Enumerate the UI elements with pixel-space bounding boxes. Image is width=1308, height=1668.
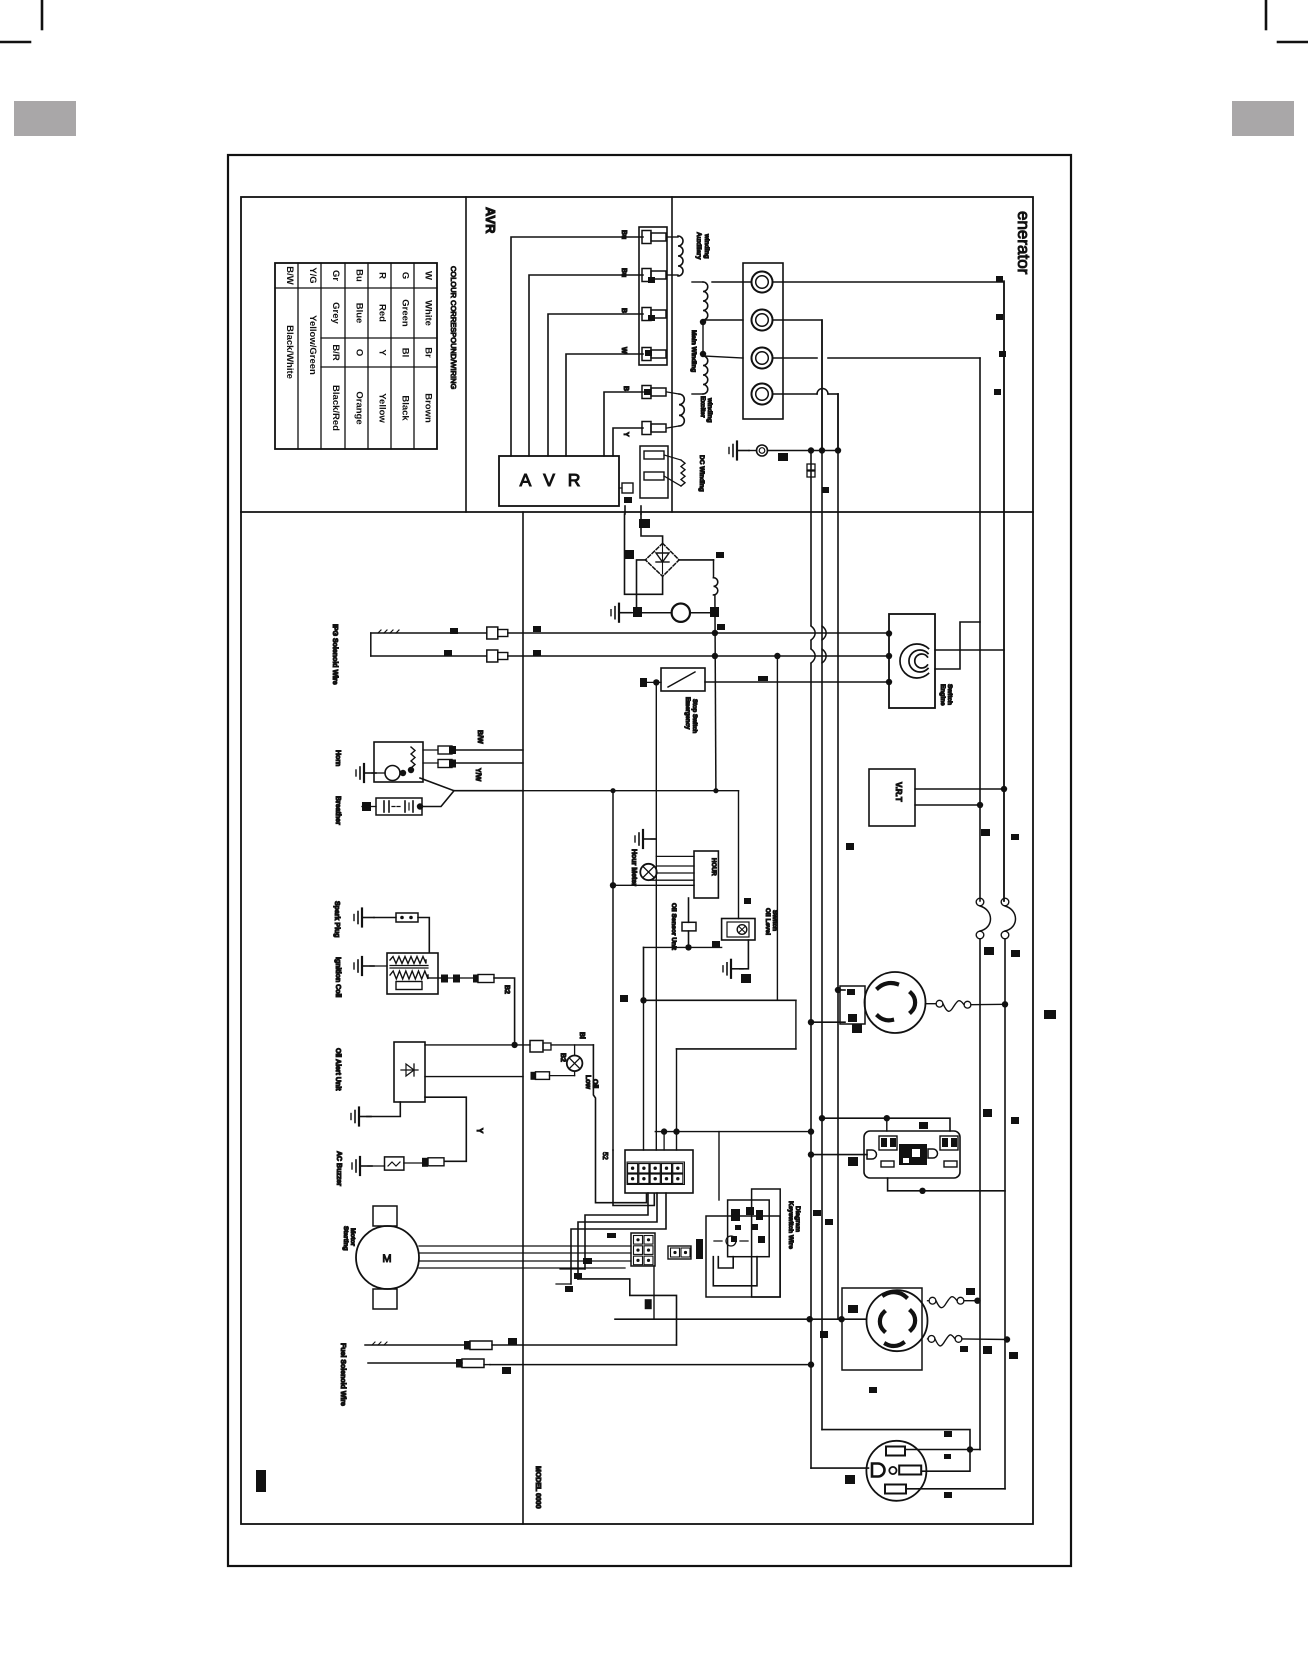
svg-text:V.R.T: V.R.T (894, 782, 903, 802)
receptacle2 cord upper (928, 1300, 930, 1302)
svg-text:Motor: Motor (349, 1228, 356, 1247)
receptacle2 slot top (884, 1292, 906, 1297)
ignition coil zigzag bottom (390, 971, 428, 979)
rv bus bottom slot (906, 1488, 1005, 1490)
svg-text:IPG Solenoid Wire: IPG Solenoid Wire (331, 624, 338, 685)
gray tab right (1232, 101, 1294, 136)
svg-text:Green: Green (400, 299, 411, 327)
wire avr to bridge 1 (624, 506, 626, 514)
receptacle2 slot bottom (886, 1343, 903, 1346)
bridge bottom wire (637, 576, 663, 594)
svg-text:B/W: B/W (476, 730, 483, 744)
wire avr pin6 (613, 428, 643, 456)
gfci left outlet slots (879, 1136, 897, 1150)
keyswitch glyphs (731, 1209, 740, 1221)
svg-text:R: R (377, 272, 388, 279)
svg-text:Black: Black (400, 395, 411, 421)
relay ground label (741, 974, 751, 983)
gfci ground wire (811, 1154, 867, 1156)
svg-text:Oil Sensor Unit: Oil Sensor Unit (670, 903, 677, 951)
oil alert wire bottom (425, 1097, 466, 1161)
rv receptacle circle (866, 1441, 926, 1501)
lamp to coil wire (690, 612, 710, 614)
fuel labels (508, 1338, 517, 1345)
coil label (716, 552, 724, 558)
breaker 1 (976, 898, 984, 906)
junction wire (644, 946, 722, 948)
auxiliary winding coil (678, 236, 683, 276)
emergency wire right (705, 681, 889, 683)
connector block upper (639, 227, 667, 365)
exciter coil (679, 394, 684, 426)
svg-text:Y: Y (377, 349, 388, 356)
engine switch out1 (935, 649, 1004, 651)
spark plug resistor (374, 917, 396, 919)
svg-text:winding: winding (706, 397, 713, 423)
connector bottom label (645, 1299, 652, 1309)
emergency to connector vertical (655, 682, 657, 1150)
divider table/avr (465, 197, 467, 512)
receptacle2 cord lower (927, 1338, 930, 1340)
pin 4 (642, 348, 651, 361)
svg-text:B2: B2 (559, 1053, 566, 1062)
oil alert wire top (425, 1044, 530, 1046)
svg-text:winding: winding (703, 233, 710, 259)
keyswitch outer box (706, 1216, 780, 1297)
rv slot top (886, 1447, 905, 1456)
connector label vertical (696, 1239, 703, 1259)
wire avr pin1 (511, 237, 643, 456)
resistor oil (682, 922, 696, 931)
fuel wire bottom (368, 1362, 462, 1364)
bridge feed pin (639, 519, 650, 528)
oil relay box (722, 919, 755, 941)
gray tab left (14, 101, 76, 136)
svg-text:AC Buzzer: AC Buzzer (335, 1151, 342, 1186)
fuel wire bottom right (484, 1364, 490, 1366)
svg-text:Y: Y (622, 432, 629, 437)
svg-text:A V R: A V R (520, 470, 585, 490)
svg-text:Diagram: Diagram (794, 1206, 801, 1232)
oil relay ground (740, 940, 749, 969)
spark wire (418, 918, 429, 953)
hour meter lamp (640, 864, 656, 880)
ground generator (736, 442, 738, 460)
pin 2 (642, 269, 651, 282)
terminal1 wire to bus (773, 282, 1005, 901)
ignition coil core (390, 965, 428, 967)
svg-text:B: B (622, 386, 629, 391)
label on L wire (620, 995, 628, 1002)
oil alert ground (358, 1108, 360, 1126)
ignition ground (361, 957, 363, 975)
svg-text:Emergency: Emergency (684, 697, 690, 730)
table column lines (297, 263, 299, 449)
pin 3 (642, 308, 651, 321)
bridge left loop (625, 514, 646, 594)
svg-text:Horn: Horn (334, 750, 341, 766)
junction label (712, 941, 720, 947)
terminal3 bus vertical (979, 358, 981, 901)
motor brush top (373, 1206, 397, 1226)
spark plug ground (361, 909, 363, 927)
avr side pin (622, 483, 633, 493)
svg-text:Bu: Bu (354, 269, 365, 282)
receptacle2 slot right (911, 1311, 915, 1330)
breaker bus down 2 (1004, 939, 1006, 1489)
gfci body (864, 1131, 960, 1178)
table row line 1 (275, 287, 437, 289)
rv slot d (872, 1464, 885, 1477)
breather leads (362, 802, 371, 811)
wire avr to bridge 2 (640, 506, 642, 514)
nested wires from connector c (571, 1193, 666, 1284)
dc pin 2 (644, 472, 664, 480)
lamp down wire 2 (613, 1150, 654, 1206)
ignition coil bar (396, 982, 422, 990)
svg-text:Y: Y (475, 1128, 484, 1134)
terminal wire labels right (996, 276, 1003, 282)
bus822 middle (821, 320, 823, 1430)
svg-text:enerator: enerator (1014, 211, 1033, 275)
terminal strip (743, 263, 783, 419)
feed from six pin (653, 1266, 655, 1319)
engine switch arcs (900, 644, 929, 678)
breather diagonal (420, 791, 454, 807)
bridge right coil (679, 559, 713, 561)
gfci ground label (848, 1157, 858, 1166)
VRT wire 1 (915, 788, 1004, 790)
svg-text:Black/Red: Black/Red (330, 385, 341, 431)
feed bus horizontal (655, 1131, 811, 1133)
gfci buttons (899, 1144, 927, 1165)
svg-text:Main Winding: Main Winding (690, 330, 697, 372)
svg-text:O: O (354, 349, 365, 356)
dc pin 1 (644, 451, 664, 459)
avr side pin label (624, 497, 632, 503)
svg-text:Hour Meter: Hour Meter (630, 849, 637, 886)
hour meter ground (642, 830, 644, 848)
bridge left pin (624, 550, 634, 559)
bus 811 to rv (811, 1467, 869, 1469)
svg-text:Y/G: Y/G (307, 267, 318, 283)
svg-text:Exciter: Exciter (699, 396, 706, 418)
fuel fuse top (464, 1341, 470, 1350)
vertical from emergency bus (776, 656, 778, 1000)
terminal 1 (752, 272, 773, 293)
crop mark top-left horizontal (0, 41, 30, 44)
IPG wire top (371, 632, 486, 634)
receptacle1 slot right (911, 993, 915, 1012)
black pin right of lamp (710, 607, 719, 617)
terminal2 wire to bus (773, 320, 823, 451)
exciter pins (642, 386, 651, 399)
receptacle2 cord labels (966, 1288, 975, 1295)
ignition connector pair (441, 975, 448, 983)
IPG pigtail (378, 630, 399, 633)
svg-text:Bu: Bu (620, 230, 627, 239)
svg-text:Grey: Grey (330, 302, 341, 324)
svg-text:Switch: Switch (946, 684, 953, 705)
lamp fuse (531, 1072, 536, 1080)
rv slot right (899, 1466, 921, 1475)
svg-text:Keyswitch Wire: Keyswitch Wire (787, 1201, 794, 1249)
terminal4 wire to bus (773, 393, 818, 395)
oil relay feed (738, 791, 740, 919)
label on 682 wire (758, 676, 768, 681)
fuel wire top (365, 1344, 464, 1346)
horn circle (385, 766, 400, 781)
receptacle1 wires left (838, 989, 845, 991)
oil alert diode (401, 1069, 418, 1071)
oil alert box (394, 1042, 425, 1102)
gfci right outlet slots (940, 1136, 958, 1150)
motor circle (356, 1226, 419, 1289)
svg-text:Auxiliary: Auxiliary (695, 232, 702, 260)
IPG connector pin top (487, 627, 498, 639)
keyswitch tall box (752, 1189, 781, 1297)
svg-text:Low: Low (584, 1075, 591, 1090)
receptacle2 slot left (880, 1312, 884, 1331)
VRT labels (981, 829, 990, 836)
lamp feed wire (551, 1044, 593, 1046)
bridge diode glyph (656, 553, 669, 562)
bridge output to bus (715, 595, 716, 791)
svg-text:M: M (382, 1253, 391, 1265)
table row line 3 (321, 366, 437, 368)
vertical x613 (612, 791, 614, 1150)
indicator lamp (567, 1056, 583, 1072)
VRT wire 2 (915, 804, 980, 806)
main winding coil upper (703, 282, 708, 320)
right wire from horn (523, 790, 739, 792)
bus label near (717, 624, 725, 630)
breaker bus down 1 (979, 939, 981, 1450)
terminal wire labels left (648, 277, 655, 283)
terminal wires left (712, 281, 752, 283)
table cell texts (284, 266, 434, 431)
ground bridge (618, 604, 620, 622)
svg-text:White: White (423, 300, 434, 326)
nested wires from connector b (578, 1193, 657, 1279)
wire avr pin3 (548, 314, 643, 456)
main winding coil lower (703, 356, 708, 394)
IPG wire bottom (371, 655, 486, 657)
receptacle1 left box (840, 986, 865, 1024)
nested loop 2 (718, 1257, 733, 1268)
svg-text:Black/White: Black/White (284, 325, 295, 379)
wire divider to bridge top (641, 514, 663, 543)
svg-text:Bu: Bu (620, 268, 627, 277)
hour meter box (694, 851, 718, 898)
dc winding zigzag (681, 460, 685, 486)
rv slot bottom (885, 1485, 906, 1494)
svg-text:W: W (423, 271, 434, 280)
table row line 2 (321, 337, 437, 339)
bus 1004 (1003, 281, 1005, 901)
VRT box (869, 769, 915, 826)
svg-text:Engine: Engine (939, 684, 946, 706)
motor brush bottom (373, 1289, 397, 1309)
wire B loop (677, 1048, 796, 1050)
fuel fuse bottom (456, 1359, 462, 1368)
connector on bus 811 (807, 464, 815, 470)
svg-text:COLOUR CORRESPOUND/WIRING: COLOUR CORRESPOUND/WIRING (449, 266, 458, 390)
horn diagonal (420, 778, 523, 791)
svg-text:Stop Switch: Stop Switch (691, 699, 697, 734)
bus 811 label (822, 487, 829, 493)
horn dots (400, 770, 406, 776)
receptacle2 circle (867, 1290, 928, 1351)
svg-text:Oil Alert Unit: Oil Alert Unit (334, 1048, 341, 1091)
svg-text:B2: B2 (503, 985, 510, 994)
receptacle1 slot top (878, 983, 897, 988)
IPG left edge (370, 633, 372, 656)
rv ground label (845, 1475, 855, 1484)
receptacle2 feed wire (615, 1318, 866, 1320)
bus jogs (809, 626, 812, 640)
svg-text:G: G (400, 272, 411, 279)
svg-text:Fuel Solenoid Wire: Fuel Solenoid Wire (339, 1343, 346, 1406)
engine switch out2 (935, 622, 980, 669)
divider avr/generator (671, 197, 673, 512)
fuel to connector chain (578, 1279, 677, 1345)
hour meter wires (657, 865, 694, 867)
oil alert wire mid (425, 1076, 523, 1078)
svg-text:Spark Plug: Spark Plug (333, 901, 340, 938)
ignition coil zigzag top (390, 957, 426, 964)
svg-text:52: 52 (601, 1152, 608, 1160)
colour code table frame (275, 263, 437, 449)
svg-text:Red: Red (377, 304, 388, 322)
IPG wire labels (450, 628, 458, 634)
svg-text:Gr: Gr (330, 270, 341, 281)
nested loop 1 (713, 1257, 757, 1286)
divider horizontal main (241, 511, 1033, 513)
ground wire (749, 450, 757, 452)
svg-text:Y/W: Y/W (474, 768, 481, 782)
relay top label (744, 898, 751, 904)
svg-text:Bl: Bl (400, 348, 411, 358)
inner border (241, 197, 1033, 1524)
terminal 3 (752, 348, 773, 369)
crop mark top-right vertical (1265, 0, 1268, 29)
svg-text:Blue: Blue (354, 303, 365, 324)
receptacle1 circle (865, 972, 926, 1033)
six pin connector (631, 1233, 655, 1266)
ground wire label (778, 453, 788, 461)
gfci dholes (867, 1150, 877, 1159)
buzzer box (385, 1157, 404, 1170)
horn box (374, 742, 423, 782)
svg-text:Orange: Orange (354, 391, 365, 424)
two pin connector (668, 1246, 691, 1259)
divider vertical lower (522, 512, 524, 1524)
svg-text:Oil: Oil (591, 1079, 598, 1088)
gfci labels (919, 1122, 928, 1129)
svg-text:Breather: Breather (334, 796, 341, 825)
terminal 2 (752, 310, 773, 331)
bus 811 labels (813, 1210, 821, 1216)
svg-text:DC Winding: DC Winding (698, 455, 705, 492)
nested wires from connector a (585, 1193, 648, 1269)
receptacle1 slot bottom (878, 1016, 892, 1020)
svg-text:B/R: B/R (330, 344, 341, 361)
buzzer fuse (404, 1162, 422, 1164)
buzzer ground (359, 1157, 361, 1175)
wire bus to hourmeter (613, 884, 694, 886)
keyswitch inner box (728, 1200, 770, 1257)
receptacle2 labels (848, 1305, 858, 1313)
rv labels right (944, 1431, 952, 1437)
gfci bottom wire (888, 1178, 1005, 1191)
ignition coil box (387, 953, 438, 994)
resistor down (688, 931, 690, 947)
wire avr pin5 (604, 392, 643, 456)
svg-text:AVR: AVR (483, 207, 498, 234)
pin 1 (642, 231, 651, 244)
ignition fuse (460, 977, 473, 979)
svg-text:B/W: B/W (284, 266, 295, 285)
breather caps (383, 801, 385, 812)
receptacle1 cord (926, 1003, 937, 1005)
ten pin connector (625, 1150, 693, 1193)
bridge lower jog (636, 594, 638, 612)
gfci wire top (822, 1118, 950, 1131)
hour meter top wire (656, 855, 694, 857)
hour meter out (688, 898, 690, 922)
receptacle1 below-box label (852, 1024, 862, 1033)
wire avr pin4 (566, 354, 643, 456)
svg-text:Brown: Brown (423, 393, 434, 423)
svg-text:Ignition Coil: Ignition Coil (334, 957, 341, 997)
horn zigzag (411, 747, 415, 768)
connector pair small (530, 1041, 543, 1053)
emergency switch pin (641, 681, 661, 683)
dc connector block (640, 446, 668, 498)
outer border (228, 155, 1071, 1566)
engine switch box (889, 614, 935, 708)
terminal 4 (752, 384, 773, 405)
breather box (376, 798, 422, 815)
neutral run to rv (822, 1430, 970, 1472)
oil relay symbol (737, 925, 747, 935)
breaker labels (984, 947, 994, 955)
table row line abbr (321, 287, 437, 289)
lamp down wire 1 (593, 1045, 646, 1203)
svg-text:Bl: Bl (578, 1032, 585, 1039)
breaker 2 (1001, 898, 1009, 906)
horn wires right (452, 749, 523, 751)
bus 838 (837, 394, 839, 1319)
fuel wire top right (492, 1344, 677, 1346)
wire junction dots on switch feeds (886, 630, 892, 636)
receptacle1 labels (1044, 1010, 1056, 1019)
crop mark top-right horizontal (1278, 41, 1308, 44)
svg-text:HOUR: HOUR (710, 858, 716, 876)
svg-text:Oil Level: Oil Level (764, 908, 771, 935)
bus wire top to switch (508, 632, 889, 634)
motor wires (419, 1245, 631, 1247)
connector feeds (663, 1132, 665, 1150)
ignition out (428, 977, 441, 979)
bus 811 upper (810, 451, 812, 1469)
motor wire labels (607, 1233, 616, 1238)
rv slot center (889, 1467, 896, 1474)
bus wire bottom to switch (508, 655, 889, 657)
AVR box U1 (499, 456, 619, 506)
svg-text:MODEL 0000: MODEL 0000 (534, 1466, 541, 1509)
